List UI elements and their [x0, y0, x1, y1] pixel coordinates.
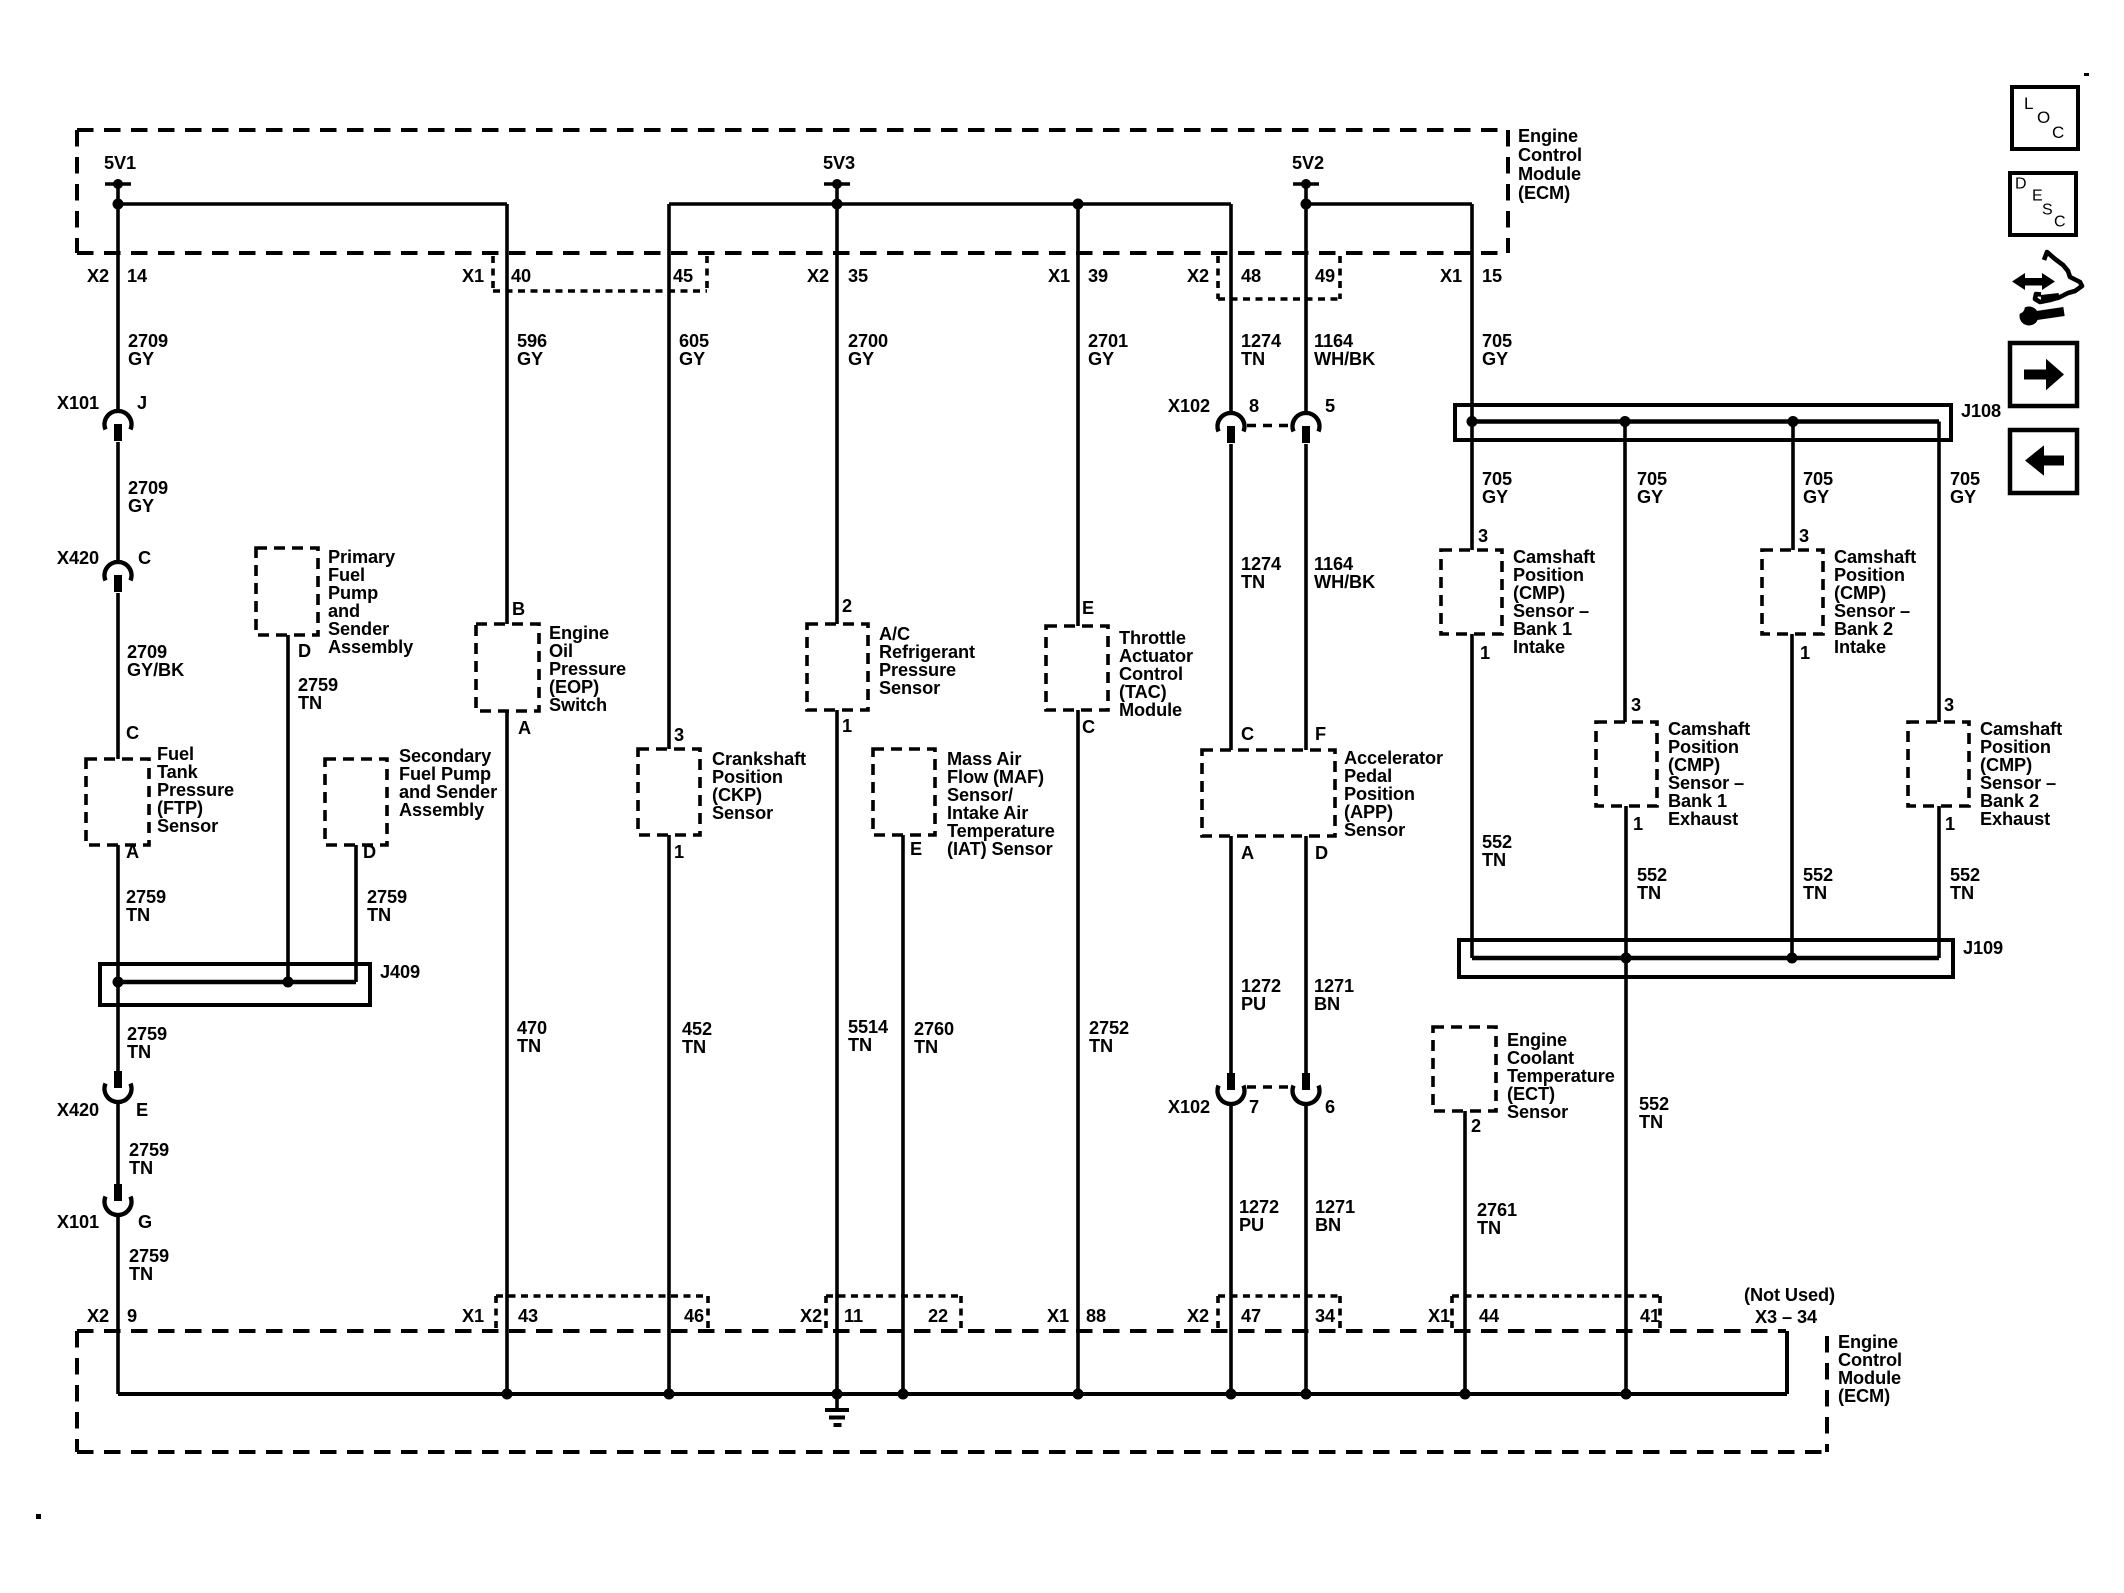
- svg-text:Sender: Sender: [328, 619, 389, 639]
- svg-text:GY: GY: [848, 349, 874, 369]
- svg-text:(Not Used): (Not Used): [1744, 1285, 1835, 1305]
- svg-text:S: S: [2042, 202, 2053, 219]
- svg-text:2: 2: [842, 596, 852, 616]
- svg-text:(EOP): (EOP): [549, 677, 599, 697]
- svg-text:GY/BK: GY/BK: [127, 660, 184, 680]
- svg-text:(FTP): (FTP): [157, 798, 203, 818]
- svg-text:Engine: Engine: [1518, 126, 1578, 146]
- svg-text:49: 49: [1315, 266, 1335, 286]
- svg-text:Intake Air: Intake Air: [947, 803, 1028, 823]
- svg-text:452: 452: [682, 1019, 712, 1039]
- svg-text:and: and: [328, 601, 360, 621]
- svg-text:1272: 1272: [1241, 976, 1281, 996]
- svg-text:C: C: [1241, 724, 1254, 744]
- svg-text:E: E: [1082, 598, 1094, 618]
- svg-text:14: 14: [127, 266, 148, 286]
- svg-text:(CMP): (CMP): [1668, 755, 1720, 775]
- svg-text:Exhaust: Exhaust: [1980, 809, 2050, 829]
- svg-text:Camshaft: Camshaft: [1980, 719, 2062, 739]
- svg-text:X1: X1: [462, 1306, 484, 1326]
- svg-text:1272: 1272: [1239, 1197, 1279, 1217]
- svg-text:GY: GY: [128, 496, 154, 516]
- svg-text:BN: BN: [1315, 1215, 1341, 1235]
- svg-text:J109: J109: [1963, 938, 2003, 958]
- svg-text:D: D: [363, 842, 376, 862]
- svg-text:B: B: [512, 599, 525, 619]
- svg-text:1: 1: [1480, 643, 1490, 663]
- svg-text:TN: TN: [1241, 349, 1265, 369]
- svg-text:TN: TN: [1241, 572, 1265, 592]
- svg-text:TN: TN: [682, 1037, 706, 1057]
- svg-text:BN: BN: [1314, 994, 1340, 1014]
- svg-text:5V1: 5V1: [104, 153, 136, 173]
- svg-text:(TAC): (TAC): [1119, 682, 1167, 702]
- svg-text:Pressure: Pressure: [879, 660, 956, 680]
- svg-text:2759: 2759: [129, 1246, 169, 1266]
- svg-text:O: O: [2037, 108, 2050, 127]
- svg-text:9: 9: [127, 1306, 137, 1326]
- svg-text:2752: 2752: [1089, 1018, 1129, 1038]
- svg-text:A: A: [126, 842, 139, 862]
- svg-text:Position: Position: [1668, 737, 1739, 757]
- svg-text:Sensor –: Sensor –: [1834, 601, 1910, 621]
- svg-text:39: 39: [1088, 266, 1108, 286]
- svg-text:X2: X2: [1187, 266, 1209, 286]
- svg-text:40: 40: [511, 266, 531, 286]
- svg-text:Bank 1: Bank 1: [1668, 791, 1727, 811]
- svg-text:Crankshaft: Crankshaft: [712, 749, 806, 769]
- svg-text:(IAT) Sensor: (IAT) Sensor: [947, 839, 1053, 859]
- svg-text:8: 8: [1249, 396, 1259, 416]
- svg-text:TN: TN: [1482, 850, 1506, 870]
- svg-text:34: 34: [1315, 1306, 1336, 1326]
- svg-text:1: 1: [842, 716, 852, 736]
- svg-text:705: 705: [1637, 469, 1667, 489]
- svg-text:Position: Position: [1513, 565, 1584, 585]
- svg-text:1274: 1274: [1241, 331, 1282, 351]
- svg-text:TN: TN: [129, 1158, 153, 1178]
- svg-text:2: 2: [1471, 1116, 1481, 1136]
- svg-text:43: 43: [518, 1306, 538, 1326]
- svg-text:15: 15: [1482, 266, 1502, 286]
- svg-text:GY: GY: [1482, 349, 1508, 369]
- svg-text:Engine: Engine: [1838, 1332, 1898, 1352]
- svg-text:Pedal: Pedal: [1344, 766, 1392, 786]
- svg-text:Fuel Pump: Fuel Pump: [399, 764, 491, 784]
- svg-text:TN: TN: [126, 905, 150, 925]
- svg-text:Bank 2: Bank 2: [1980, 791, 2039, 811]
- svg-text:Module: Module: [1518, 164, 1581, 184]
- svg-text:88: 88: [1086, 1306, 1106, 1326]
- svg-text:Engine: Engine: [549, 623, 609, 643]
- svg-text:5V2: 5V2: [1292, 153, 1324, 173]
- svg-text:Switch: Switch: [549, 695, 607, 715]
- svg-text:X2: X2: [87, 266, 109, 286]
- svg-text:Intake: Intake: [1834, 637, 1886, 657]
- svg-text:X3 – 34: X3 – 34: [1755, 1307, 1818, 1327]
- svg-text:GY: GY: [1088, 349, 1114, 369]
- svg-text:1274: 1274: [1241, 554, 1282, 574]
- svg-text:Camshaft: Camshaft: [1834, 547, 1916, 567]
- svg-text:552: 552: [1639, 1094, 1669, 1114]
- svg-text:Camshaft: Camshaft: [1513, 547, 1595, 567]
- svg-text:Bank 2: Bank 2: [1834, 619, 1893, 639]
- svg-text:5V3: 5V3: [823, 153, 855, 173]
- svg-text:2700: 2700: [848, 331, 888, 351]
- svg-text:A/C: A/C: [879, 624, 910, 644]
- svg-text:X2: X2: [800, 1306, 822, 1326]
- svg-text:48: 48: [1241, 266, 1261, 286]
- svg-text:46: 46: [684, 1306, 704, 1326]
- svg-text:Control: Control: [1119, 664, 1183, 684]
- svg-text:TN: TN: [1803, 883, 1827, 903]
- svg-text:Module: Module: [1119, 700, 1182, 720]
- svg-text:5514: 5514: [848, 1017, 889, 1037]
- svg-text:Refrigerant: Refrigerant: [879, 642, 975, 662]
- svg-text:Pressure: Pressure: [157, 780, 234, 800]
- svg-text:7: 7: [1249, 1097, 1259, 1117]
- svg-text:TN: TN: [1637, 883, 1661, 903]
- svg-text:22: 22: [928, 1306, 948, 1326]
- svg-text:C: C: [2054, 214, 2065, 231]
- svg-text:X1: X1: [1428, 1306, 1450, 1326]
- svg-text:Assembly: Assembly: [328, 637, 414, 657]
- svg-text:2759: 2759: [129, 1140, 169, 1160]
- svg-text:Position: Position: [1980, 737, 2051, 757]
- svg-text:44: 44: [1479, 1306, 1500, 1326]
- svg-text:X420: X420: [57, 548, 99, 568]
- svg-text:(ECM): (ECM): [1518, 183, 1570, 203]
- svg-text:TN: TN: [914, 1037, 938, 1057]
- svg-text:596: 596: [517, 331, 547, 351]
- svg-text:Flow (MAF): Flow (MAF): [947, 767, 1044, 787]
- svg-text:Sensor/: Sensor/: [947, 785, 1013, 805]
- svg-text:3: 3: [1478, 526, 1488, 546]
- svg-text:X2: X2: [807, 266, 829, 286]
- svg-text:Mass Air: Mass Air: [947, 749, 1021, 769]
- svg-text:GY: GY: [1482, 487, 1508, 507]
- svg-text:3: 3: [1631, 695, 1641, 715]
- svg-text:X1: X1: [1048, 266, 1070, 286]
- svg-text:Sensor: Sensor: [712, 803, 773, 823]
- svg-text:Tank: Tank: [157, 762, 199, 782]
- svg-text:(APP): (APP): [1344, 802, 1393, 822]
- svg-text:GY: GY: [679, 349, 705, 369]
- svg-text:(CMP): (CMP): [1980, 755, 2032, 775]
- svg-text:Temperature: Temperature: [1507, 1066, 1615, 1086]
- svg-text:and Sender: and Sender: [399, 782, 497, 802]
- svg-text:2709: 2709: [128, 331, 168, 351]
- svg-text:G: G: [138, 1212, 152, 1232]
- svg-text:TN: TN: [129, 1264, 153, 1284]
- svg-text:(ECM): (ECM): [1838, 1386, 1890, 1406]
- svg-text:1271: 1271: [1315, 1197, 1355, 1217]
- svg-text:470: 470: [517, 1018, 547, 1038]
- svg-text:705: 705: [1482, 331, 1512, 351]
- svg-text:X2: X2: [87, 1306, 109, 1326]
- svg-text:Sensor: Sensor: [879, 678, 940, 698]
- svg-text:Position: Position: [1344, 784, 1415, 804]
- svg-text:Intake: Intake: [1513, 637, 1565, 657]
- svg-text:2761: 2761: [1477, 1200, 1517, 1220]
- svg-text:552: 552: [1803, 865, 1833, 885]
- svg-text:1164: 1164: [1314, 331, 1354, 351]
- svg-text:Fuel: Fuel: [157, 744, 194, 764]
- svg-text:Sensor –: Sensor –: [1668, 773, 1744, 793]
- svg-text:Bank 1: Bank 1: [1513, 619, 1572, 639]
- svg-text:Sensor: Sensor: [1507, 1102, 1568, 1122]
- svg-text:1271: 1271: [1314, 976, 1354, 996]
- svg-text:Primary: Primary: [328, 547, 396, 567]
- svg-text:Actuator: Actuator: [1119, 646, 1193, 666]
- svg-text:41: 41: [1640, 1306, 1660, 1326]
- svg-text:X420: X420: [57, 1100, 99, 1120]
- svg-text:Sensor: Sensor: [1344, 820, 1405, 840]
- svg-text:Camshaft: Camshaft: [1668, 719, 1750, 739]
- svg-text:1164: 1164: [1314, 554, 1354, 574]
- svg-text:47: 47: [1241, 1306, 1261, 1326]
- svg-text:2709: 2709: [127, 642, 167, 662]
- svg-text:C: C: [2052, 123, 2064, 142]
- svg-text:E: E: [136, 1100, 148, 1120]
- svg-text:TN: TN: [848, 1035, 872, 1055]
- svg-text:TN: TN: [1089, 1036, 1113, 1056]
- svg-text:11: 11: [844, 1306, 863, 1326]
- svg-text:(CKP): (CKP): [712, 785, 762, 805]
- svg-text:1: 1: [1800, 643, 1810, 663]
- svg-text:A: A: [1241, 843, 1254, 863]
- svg-text:Exhaust: Exhaust: [1668, 809, 1738, 829]
- svg-text:2759: 2759: [126, 887, 166, 907]
- svg-text:J409: J409: [380, 962, 420, 982]
- svg-text:705: 705: [1950, 469, 1980, 489]
- svg-text:45: 45: [673, 266, 693, 286]
- svg-text:PU: PU: [1239, 1215, 1264, 1235]
- svg-text:GY: GY: [1637, 487, 1663, 507]
- svg-text:Throttle: Throttle: [1119, 628, 1186, 648]
- svg-text:Position: Position: [1834, 565, 1905, 585]
- svg-text:705: 705: [1482, 469, 1512, 489]
- svg-text:(ECT): (ECT): [1507, 1084, 1555, 1104]
- svg-text:WH/BK: WH/BK: [1314, 349, 1375, 369]
- svg-text:35: 35: [848, 266, 868, 286]
- svg-text:Position: Position: [712, 767, 783, 787]
- svg-text:Sensor –: Sensor –: [1980, 773, 2056, 793]
- svg-text:PU: PU: [1241, 994, 1266, 1014]
- svg-text:5: 5: [1325, 396, 1335, 416]
- svg-text:1: 1: [1633, 814, 1643, 834]
- svg-text:GY: GY: [517, 349, 543, 369]
- svg-text:F: F: [1315, 724, 1326, 744]
- svg-text:Sensor –: Sensor –: [1513, 601, 1589, 621]
- svg-text:A: A: [518, 718, 531, 738]
- svg-text:C: C: [126, 723, 139, 743]
- svg-text:TN: TN: [298, 693, 322, 713]
- svg-text:605: 605: [679, 331, 709, 351]
- svg-text:552: 552: [1482, 832, 1512, 852]
- svg-text:705: 705: [1803, 469, 1833, 489]
- svg-text:Coolant: Coolant: [1507, 1048, 1574, 1068]
- svg-text:X102: X102: [1168, 1097, 1210, 1117]
- svg-text:Accelerator: Accelerator: [1344, 748, 1443, 768]
- svg-text:TN: TN: [127, 1042, 151, 1062]
- svg-text:GY: GY: [128, 349, 154, 369]
- svg-text:X1: X1: [1440, 266, 1462, 286]
- svg-text:TN: TN: [1950, 883, 1974, 903]
- svg-text:Fuel: Fuel: [328, 565, 365, 585]
- svg-text:3: 3: [674, 725, 684, 745]
- svg-text:GY: GY: [1803, 487, 1829, 507]
- svg-text:2759: 2759: [298, 675, 338, 695]
- svg-text:3: 3: [1944, 695, 1954, 715]
- svg-text:D: D: [1315, 843, 1328, 863]
- svg-text:X2: X2: [1187, 1306, 1209, 1326]
- svg-text:6: 6: [1325, 1097, 1335, 1117]
- svg-text:X101: X101: [57, 393, 99, 413]
- svg-text:D: D: [2015, 176, 2026, 193]
- svg-text:Oil: Oil: [549, 641, 573, 661]
- svg-text:552: 552: [1950, 865, 1980, 885]
- svg-text:552: 552: [1637, 865, 1667, 885]
- svg-text:X1: X1: [1047, 1306, 1069, 1326]
- svg-text:X101: X101: [57, 1212, 99, 1232]
- svg-text:GY: GY: [1950, 487, 1976, 507]
- svg-text:Control: Control: [1518, 145, 1582, 165]
- svg-text:E: E: [910, 839, 922, 859]
- svg-text:Control: Control: [1838, 1350, 1902, 1370]
- svg-text:2759: 2759: [127, 1024, 167, 1044]
- svg-text:C: C: [138, 548, 151, 568]
- svg-text:1: 1: [1945, 814, 1955, 834]
- svg-text:TN: TN: [517, 1036, 541, 1056]
- svg-text:L: L: [2024, 94, 2033, 113]
- svg-text:TN: TN: [1477, 1218, 1501, 1238]
- svg-text:Assembly: Assembly: [399, 800, 485, 820]
- svg-text:WH/BK: WH/BK: [1314, 572, 1375, 592]
- svg-text:TN: TN: [1639, 1112, 1663, 1132]
- svg-text:(CMP): (CMP): [1513, 583, 1565, 603]
- svg-text:J: J: [137, 393, 147, 413]
- svg-text:Pressure: Pressure: [549, 659, 626, 679]
- svg-text:TN: TN: [367, 905, 391, 925]
- svg-text:J108: J108: [1961, 401, 2001, 421]
- svg-text:E: E: [2032, 188, 2043, 205]
- svg-text:2759: 2759: [367, 887, 407, 907]
- svg-text:2701: 2701: [1088, 331, 1128, 351]
- svg-text:Module: Module: [1838, 1368, 1901, 1388]
- svg-text:2760: 2760: [914, 1019, 954, 1039]
- svg-text:X1: X1: [462, 266, 484, 286]
- svg-text:X102: X102: [1168, 396, 1210, 416]
- svg-text:2709: 2709: [128, 478, 168, 498]
- svg-text:Temperature: Temperature: [947, 821, 1055, 841]
- svg-text:1: 1: [674, 842, 684, 862]
- svg-text:(CMP): (CMP): [1834, 583, 1886, 603]
- svg-text:Pump: Pump: [328, 583, 378, 603]
- svg-text:C: C: [1082, 717, 1095, 737]
- svg-text:D: D: [298, 641, 311, 661]
- svg-text:Engine: Engine: [1507, 1030, 1567, 1050]
- svg-text:Sensor: Sensor: [157, 816, 218, 836]
- svg-text:3: 3: [1799, 526, 1809, 546]
- svg-text:Secondary: Secondary: [399, 746, 492, 766]
